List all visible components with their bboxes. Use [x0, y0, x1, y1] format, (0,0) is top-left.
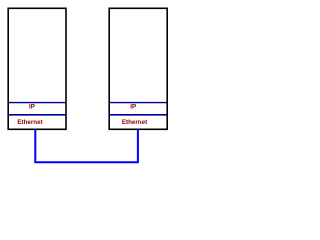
node Ethernet separator right [109, 113, 167, 116]
wire Ethernet cable [35, 130, 138, 163]
host box right [109, 8, 167, 129]
node Ethernet separator left [8, 113, 66, 116]
node IP separator right [109, 101, 167, 104]
host box left [8, 8, 66, 129]
svg-text:Ethernet: Ethernet [17, 119, 42, 126]
svg-text:Ethernet: Ethernet [122, 119, 147, 126]
svg-text:IP: IP [130, 104, 136, 111]
node IP separator left [8, 101, 66, 104]
svg-text:IP: IP [29, 104, 35, 111]
